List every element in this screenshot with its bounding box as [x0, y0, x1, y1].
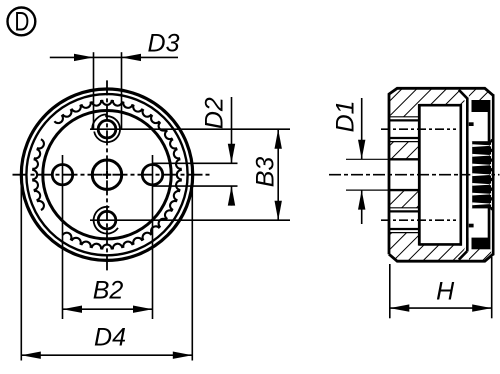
right hole	[142, 165, 162, 185]
dimension H extension lines	[389, 264, 391, 318]
wire horizontal centerline of front view	[13, 174, 211, 176]
dimension H arrows	[390, 304, 410, 311]
dimension D3 arrows	[74, 54, 94, 61]
hatched section: top band and upper left block	[390, 89, 467, 117]
outer circle of knob front view	[21, 89, 192, 260]
dimension D3 extension lines	[93, 52, 95, 129]
dimension B2 arrows	[63, 306, 83, 313]
svg-text:H: H	[436, 278, 455, 306]
dimension D4 extension lines	[20, 184, 22, 361]
hatched section: block between center and bottom hole	[390, 190, 419, 208]
cap face bottom chamfer	[459, 251, 467, 259]
recess right wall	[459, 104, 462, 246]
svg-text:B3: B3	[252, 157, 280, 188]
top hole thread arc	[94, 116, 120, 142]
dimension B3 line	[277, 129, 279, 220]
bottom hole thread arc	[94, 207, 118, 234]
hatched section: bottom band and lower left block	[390, 233, 467, 261]
hatched section: cap bottom strip	[469, 247, 491, 261]
recess top edge	[419, 104, 462, 107]
dimension D2 extension lines	[153, 162, 238, 164]
center mark cross of center hole	[103, 174, 111, 176]
dimension H line	[390, 307, 492, 309]
view label balloon circle	[8, 8, 36, 36]
bottom threaded hole inner circle	[98, 211, 116, 229]
bottom hole bore lines (thick)	[390, 210, 420, 212]
svg-text:D2: D2	[201, 97, 229, 129]
top hole thread major lines (thin)	[390, 116, 420, 118]
recess bottom edge	[419, 243, 462, 246]
bottom hole thread major lines (thin)	[390, 207, 420, 209]
svg-text:D3: D3	[148, 30, 180, 58]
centerline of bottom hole (side view)	[381, 219, 456, 221]
wire horizontal centerline through top hole / B3 extension	[90, 128, 290, 130]
top hole thread arc tail	[92, 114, 107, 130]
wire horizontal centerline through bottom hole / B3 extension	[90, 219, 290, 221]
dimension D3 line	[50, 56, 178, 58]
cap front face line	[466, 98, 469, 252]
side view body outline with chamfered corners	[389, 88, 493, 261]
dimension D1 arrows	[358, 140, 365, 160]
cap face top chamfer	[459, 90, 467, 98]
outer rim edge (right outline of knob)	[492, 94, 495, 255]
dimension D4 arrows	[21, 352, 41, 359]
hatched section: block between top and center hole	[390, 142, 419, 160]
dimension D1 line	[361, 98, 363, 159]
recess left wall (inner wall of hub)	[418, 104, 421, 246]
svg-text:B2: B2	[93, 277, 124, 305]
inner circle (face edge)	[43, 111, 171, 239]
center hole	[92, 160, 121, 189]
top threaded hole M-hole inner circle	[98, 120, 116, 138]
knurl teeth column (side view)	[469, 100, 495, 249]
top hole bore lines (thick)	[390, 119, 420, 121]
svg-text:D: D	[14, 7, 29, 37]
wire vertical centerline of left hole / B2 extension	[62, 155, 64, 319]
wire vertical centerline of right hole / B2 extension	[152, 155, 154, 319]
hatched section: cap top strip	[469, 89, 491, 103]
second circle (rim inner edge)	[26, 94, 187, 255]
left hole	[52, 165, 72, 185]
main axis centerline (side view)	[329, 174, 500, 176]
dimension D2 arrows	[228, 144, 235, 164]
svg-text:D1: D1	[332, 100, 360, 132]
dimension D1 extension lines	[346, 158, 419, 160]
center hole bore lines (thick)	[390, 158, 420, 160]
svg-text:D4: D4	[94, 324, 126, 352]
centerline of top hole (side view)	[381, 128, 456, 130]
toothed grip ring (knurl, front view)	[32, 100, 182, 250]
wire vertical centerline of front view	[106, 80, 108, 272]
dimension D4 line	[21, 354, 192, 356]
dimension B2 line	[63, 308, 153, 310]
dimension D2 line	[231, 97, 233, 163]
dimension B3 arrows	[275, 129, 282, 149]
